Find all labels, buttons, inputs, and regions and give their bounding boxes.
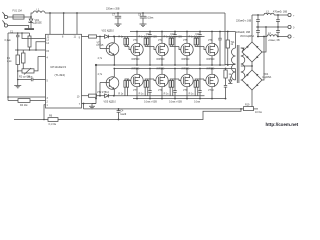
MOSFET VT4: [156, 31, 168, 66]
capacitor C11: [194, 31, 202, 66]
wire top of left block: [8, 32, 30, 34]
wire output lower rail + inductor L4: [257, 32, 288, 36]
svg-text:VT4: VT4: [158, 39, 163, 42]
svg-text:R4 10к: R4 10к: [20, 104, 28, 107]
wire bridge VD4 bottom down: [251, 90, 253, 107]
inductor L3: [264, 11, 274, 15]
svg-text:Д815Е: Д815Е: [35, 22, 43, 25]
wire output mid rail: [256, 26, 288, 28]
svg-text:(TL494): (TL494): [55, 73, 66, 77]
svg-text:IRF540: IRF540: [182, 58, 191, 61]
terminal X2 (input common): [2, 20, 7, 27]
node B: [99, 36, 101, 38]
MOSFET VT8: [156, 68, 168, 100]
terminal X5 (-U out): [288, 35, 295, 39]
node A junction: [30, 16, 32, 18]
resistor pair (gate) VT6: [189, 36, 206, 50]
MOSFET VT5: [181, 31, 193, 66]
wire output top rail: [252, 14, 264, 16]
wire feedback bus: [84, 104, 244, 109]
diode VD2: [102, 29, 115, 38]
wire secondary to bridge VD4: [241, 79, 242, 81]
wire bottom return bus: [14, 119, 48, 121]
wire bridge VD3 right to mid rail: [262, 27, 266, 52]
resistor R1: [7, 50, 20, 71]
svg-text:0,1мк: 0,1мк: [194, 100, 201, 103]
node bus-pin11: [76, 12, 78, 14]
wire pin13: [22, 33, 46, 39]
capacitor C8: [138, 12, 154, 24]
wire gate bus (top): [114, 36, 205, 38]
wire drain bus (top row): [130, 31, 236, 33]
wire pin1 down to bottom bus: [44, 105, 46, 120]
wire bridge VD4 top: [251, 66, 253, 70]
svg-text:http://cxem.net: http://cxem.net: [266, 122, 299, 127]
svg-text:0,22мк: 0,22мк: [146, 16, 154, 19]
wire drain bus B (bottom row): [114, 68, 236, 70]
resistor pair (gate) VT9: [164, 79, 181, 96]
inductor L1: [33, 9, 45, 13]
wire source bus A: [96, 64, 226, 66]
svg-text:IRF540: IRF540: [207, 68, 216, 71]
ground (C8): [140, 24, 147, 26]
capacitor C10: [169, 31, 182, 66]
resistor R3: [28, 33, 31, 50]
trimmer R5 (уст. Uвых): [18, 57, 38, 79]
ground (secondary): [228, 77, 232, 84]
capacitor C7: [106, 8, 121, 24]
wire pin7 to ground: [82, 103, 97, 105]
wire input to fuse: [8, 16, 13, 18]
svg-text:IRF540: IRF540: [157, 58, 166, 61]
wire bridge VD3 + output up: [251, 15, 253, 42]
wire pin14: [36, 42, 46, 50]
capacitor C19: [276, 14, 280, 28]
wire X2 to ground: [8, 26, 29, 29]
wire fuse to node: [24, 16, 31, 18]
resistor pair (gate) VT5: [164, 36, 181, 50]
capacitor C15: [194, 68, 202, 104]
svg-text:220мкФ, 16В: 220мкФ, 16В: [236, 31, 250, 34]
resistor R16 + capacitor C16 (RC snubber bottom): [224, 68, 232, 100]
capacitor C4: [117, 108, 127, 120]
svg-text:IRF540: IRF540: [207, 58, 216, 61]
wire pin12: [49, 13, 51, 34]
wire bridge VD4 right to lower rail: [262, 37, 264, 81]
resistor R6 (current sense): [48, 114, 58, 126]
terminal X4 (0): [288, 25, 295, 29]
capacitor C17: [236, 14, 260, 28]
svg-text:IRF540: IRF540: [182, 68, 191, 71]
svg-text:IRF540: IRF540: [157, 68, 166, 71]
wire node A up: [31, 13, 33, 17]
terminal X1 (+12V input): [2, 12, 7, 19]
svg-text:0,1 Ом: 0,1 Ом: [49, 123, 57, 126]
svg-text:1мкФ: 1мкФ: [120, 113, 126, 116]
transistor VT1: [97, 36, 119, 66]
ground (input, chassis bar): [25, 28, 35, 30]
wire ground drop x96: [92, 65, 96, 104]
terminal X3 (+U out): [288, 13, 295, 17]
fuse FU1: [13, 9, 25, 19]
ground (C7): [115, 24, 122, 26]
capacitor C14: [169, 68, 182, 104]
bridge rectifier VD3: [240, 35, 262, 62]
ground (pin 7): [89, 104, 95, 109]
svg-text:КТ815: КТ815: [97, 44, 105, 47]
wire pin4: [38, 56, 46, 58]
wire secondary to bridge VD3: [241, 48, 244, 52]
capacitor C18: [236, 27, 260, 37]
zener diode VD1: [29, 17, 42, 28]
capacitor C12: [218, 31, 221, 66]
resistor R8 (pin10): [82, 94, 105, 97]
left control rail: [7, 33, 9, 101]
svg-text:КР1114ЕУ4: КР1114ЕУ4: [51, 65, 67, 69]
svg-text:VT10: VT10: [208, 89, 214, 92]
resistor pair (gate) VT3: [118, 36, 130, 50]
svg-text:220мкФ х 16В: 220мкФ х 16В: [236, 20, 252, 23]
MOSFET VT6: [206, 31, 218, 66]
node bus-pin12: [49, 12, 51, 14]
transformer T1: [231, 32, 245, 84]
transistor VT2: [97, 68, 119, 96]
wire pin15: [15, 49, 46, 51]
resistor R19: [244, 104, 263, 115]
capacitor C13: [144, 68, 157, 104]
svg-text:0,1мк х 63В: 0,1мк х 63В: [144, 100, 157, 103]
svg-text:IRF540: IRF540: [132, 58, 141, 61]
resistor R4 + wire pin2: [8, 99, 46, 107]
svg-text:VD2 КД510: VD2 КД510: [102, 29, 115, 32]
wire pin3: [8, 96, 46, 98]
svg-text:0,1мк х 63В: 0,1мк х 63В: [169, 100, 182, 103]
svg-text:VT5: VT5: [183, 39, 188, 42]
wire +12V top bus: [45, 12, 225, 14]
resistor R7 (pin9): [82, 35, 105, 38]
svg-text:VT9: VT9: [183, 89, 188, 92]
ground (left block): [14, 86, 21, 88]
svg-text:+Uвых, 6В: +Uвых, 6В: [268, 39, 280, 42]
svg-text:VT2 КТ814: VT2 КТ814: [97, 91, 110, 94]
wire gate bus (bottom): [114, 95, 205, 97]
resistor pair (gate) VT4: [139, 36, 156, 50]
svg-text:10 Ом: 10 Ом: [255, 111, 262, 114]
wire R1 bottom to ground: [17, 71, 19, 86]
wire pin8: [63, 13, 65, 34]
node C: [99, 95, 101, 97]
wire source bus (bottom row): [133, 98, 226, 100]
svg-text:VT6: VT6: [208, 39, 213, 42]
resistor pair (gate) VT7: [118, 79, 130, 96]
resistor R15: [226, 31, 234, 66]
svg-text:VT3: VT3: [133, 39, 138, 42]
svg-text:470мкФ, 16В: 470мкФ, 16В: [273, 10, 287, 13]
svg-text:Тр1: Тр1: [231, 41, 236, 44]
svg-text:R19: R19: [245, 104, 250, 107]
resistor R2: [22, 50, 26, 69]
capacitor C20: [273, 10, 287, 37]
MOSFET VT3: [131, 31, 143, 66]
wire bridge VD3 bottom to secondary tap: [241, 62, 252, 66]
capacitor C9: [144, 31, 157, 66]
IC U1 KR1114EU4 (TL494): [46, 34, 82, 108]
bridge rectifier VD4: [242, 70, 272, 90]
node bus-pin8: [63, 12, 65, 14]
wire C18 bottom node: [257, 36, 259, 38]
wire +12V feed to center tap: [225, 13, 236, 65]
svg-text:FU1 10A: FU1 10A: [13, 9, 23, 12]
capacitor C3: [17, 75, 46, 81]
svg-text:VT8: VT8: [158, 89, 163, 92]
svg-text:220мк х 35В: 220мк х 35В: [106, 8, 120, 11]
diode VD5: [104, 94, 117, 104]
svg-text:IRF540: IRF540: [132, 68, 141, 71]
resistor pair (gate) VT10: [189, 79, 206, 96]
MOSFET VT9: [181, 68, 193, 100]
MOSFET VT10: [206, 68, 218, 100]
resistor pair (gate) VT8: [139, 79, 156, 96]
wire pin11: [76, 13, 78, 34]
svg-text:VT7: VT7: [133, 89, 138, 92]
svg-text:0,1мк: 0,1мк: [5, 39, 12, 42]
MOSFET VT7: [131, 68, 143, 100]
capacitor C1: [5, 31, 20, 50]
svg-text:VD5 КД510: VD5 КД510: [104, 101, 117, 104]
